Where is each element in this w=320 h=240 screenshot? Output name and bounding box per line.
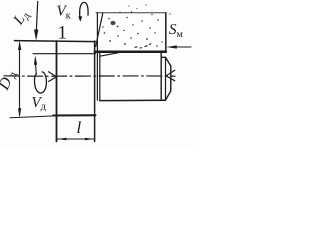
small cylinder bottom edge [100, 99, 166, 101]
D_d bottom arrowhead [18, 108, 21, 117]
D_d top arrowhead [18, 41, 21, 50]
workpiece left face [56, 41, 58, 142]
V_d arrow line [35, 63, 38, 74]
left center cone [49, 72, 57, 82]
l left arrowhead [57, 138, 67, 140]
wheel stipple dots [102, 4, 170, 48]
l right arrowhead [85, 138, 95, 140]
L_d dimension line [36, 2, 37, 31]
D_d label [0, 67, 20, 93]
l dimension line [57, 138, 95, 140]
S_m feed arrow [176, 46, 191, 48]
centerline [4, 75, 175, 77]
svg-text:l: l [77, 118, 82, 137]
workpiece bottom edge [53, 114, 96, 116]
svg-text:1: 1 [58, 23, 68, 44]
small cylinder inner vertical [160, 52, 162, 100]
V_d rotation symbol [34, 72, 46, 93]
D_d dimension line [19, 43, 21, 116]
V_d arrowhead [34, 56, 37, 65]
ground level line [33, 53, 96, 55]
small cylinder chamfer edge line [165, 58, 167, 101]
grinding wheel outline [96, 12, 166, 14]
wheel left vertical edge [96, 13, 98, 101]
small cylinder left face [99, 53, 101, 100]
small cylinder top edge [100, 53, 118, 56]
V_k rotation arrow [80, 2, 88, 19]
workpiece right face [94, 41, 96, 142]
small cylinder right end cap [161, 57, 171, 100]
L_d arrowhead [34, 30, 38, 41]
right center cone [166, 70, 175, 81]
D_d bottom extension line [10, 116, 52, 118]
L_d label [10, 7, 33, 30]
workpiece big cylinder top edge [15, 41, 96, 42]
wheel left slanted edge [96, 13, 103, 47]
